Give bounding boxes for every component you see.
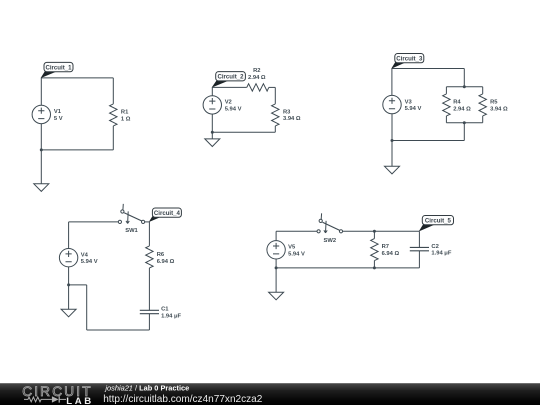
svg-text:Circuit_4: Circuit_4 [154, 210, 181, 217]
label R7 6.94 Ω [382, 244, 400, 257]
wire: bottom horizontal net [276, 267, 419, 269]
voltage source V4 [59, 249, 77, 267]
ground (circuit 3) [385, 166, 400, 174]
wire: below V5 [275, 259, 277, 268]
wire: top horizontal from corner to SW1 [69, 221, 119, 223]
svg-text:5.94 V: 5.94 V [81, 259, 98, 265]
label V1 5 V [54, 109, 63, 122]
node label flag Circuit_5 [419, 216, 454, 232]
wire: right vertical above R3 [274, 87, 276, 104]
svg-text:R3: R3 [283, 109, 291, 115]
wire: ground stem [391, 141, 393, 167]
svg-text:1.94 μF: 1.94 μF [161, 314, 181, 320]
svg-text:Circuit_1: Circuit_1 [45, 64, 72, 71]
ground (circuit 2) [205, 139, 220, 147]
junction at V1 bottom node [40, 148, 43, 151]
label V2 5.94 V [225, 100, 242, 113]
voltage source V2 [203, 96, 221, 114]
svg-text:Circuit_3: Circuit_3 [396, 56, 423, 63]
label V5 5.94 V [288, 245, 305, 258]
voltage source V1 [32, 105, 50, 123]
wire: below C1 [148, 314, 150, 330]
svg-text:V2: V2 [225, 100, 232, 106]
label R4 2.94 Ω [453, 100, 471, 113]
resistor R4 [443, 94, 450, 116]
wire: top horizontal net [392, 68, 464, 70]
wire: ground stem [40, 150, 42, 184]
svg-text:3.94 Ω: 3.94 Ω [490, 107, 508, 113]
svg-text:2.94 Ω: 2.94 Ω [453, 107, 471, 113]
svg-text:V1: V1 [54, 109, 62, 115]
label V4 5.94 V [81, 252, 98, 265]
svg-text:6.94 Ω: 6.94 Ω [382, 251, 400, 257]
wire: above C2 [418, 231, 420, 247]
label R2 2.94 Ω [248, 68, 266, 81]
label R3 3.94 Ω [283, 109, 301, 122]
wire: SW1 to corner [145, 221, 150, 223]
svg-text:5.94 V: 5.94 V [288, 251, 305, 257]
switch SW2 [317, 213, 343, 233]
wire: ground stem [68, 285, 70, 309]
voltage source V3 [383, 95, 401, 113]
wire: left vertical above V5 [275, 231, 277, 241]
wire: R4 top stub [445, 87, 447, 94]
svg-text:LAB: LAB [66, 396, 94, 405]
svg-text:Circuit_2: Circuit_2 [217, 74, 244, 81]
wire: below C2 [418, 251, 420, 268]
ground (circuit 4) [61, 309, 76, 317]
voltage source V5 [267, 241, 285, 259]
svg-text:R6: R6 [157, 252, 165, 258]
ground (circuit 5) [269, 292, 284, 300]
junction at V2 bottom node [211, 131, 214, 134]
wire: below R7 [373, 261, 375, 268]
label C2 1.94 μF [431, 244, 451, 257]
svg-text:SW2: SW2 [324, 238, 337, 244]
footer bar [0, 383, 540, 405]
junction at parallel top node [463, 85, 466, 88]
svg-text:6.94 Ω: 6.94 Ω [157, 259, 175, 265]
node label flag Circuit_1 [41, 62, 73, 78]
node label flag Circuit_2 [212, 72, 246, 88]
svg-text:V3: V3 [405, 99, 413, 105]
resistor R1 [110, 104, 117, 126]
wire: top right segment R2 to corner [269, 86, 276, 88]
svg-text:Circuit_5: Circuit_5 [425, 218, 452, 225]
svg-text:1 Ω: 1 Ω [121, 116, 131, 122]
wire: down to bottom rail [86, 285, 88, 330]
junction at V4 bottom node [67, 283, 70, 286]
wire: junction to right [69, 284, 87, 286]
svg-text:R4: R4 [453, 100, 461, 106]
CircuitLab logo [22, 384, 94, 405]
junction at V5 bottom node [275, 266, 278, 269]
wire: top left segment V2 to R2 [212, 86, 247, 88]
wire: parallel bottom bus [446, 122, 482, 124]
wire: below V2 [211, 114, 213, 132]
wire: right vertical into parallel pair [463, 69, 465, 87]
wire: below V3 [391, 114, 393, 141]
svg-text:C2: C2 [431, 244, 438, 250]
svg-text:http://circuitlab.com/cz4n77xn: http://circuitlab.com/cz4n77xn2cza2 [103, 394, 263, 405]
svg-text:SW1: SW1 [125, 228, 138, 234]
svg-text:5.94 V: 5.94 V [225, 106, 242, 112]
svg-text:1.94 μF: 1.94 μF [431, 251, 451, 257]
wire: bottom horizontal net [392, 140, 464, 142]
wire: below V1 [40, 123, 42, 149]
wire: bottom horizontal net [87, 329, 150, 331]
wire: below R1 [112, 126, 114, 150]
wire: bottom horizontal net [212, 131, 275, 133]
node label flag Circuit_3 [391, 54, 424, 69]
svg-text:3.94 Ω: 3.94 Ω [283, 116, 301, 122]
resistor R5 [479, 94, 486, 116]
node label flag Circuit_4 [149, 208, 182, 222]
svg-text:5 V: 5 V [54, 116, 63, 122]
label C1 1.94 μF [161, 307, 181, 320]
resistor R2 (horizontal) [247, 84, 269, 91]
resistor R6 [146, 246, 153, 268]
junction at R7 top node [373, 230, 376, 233]
wire: right vertical above R6 [148, 222, 150, 246]
wire: SW2 to C2 corner [343, 230, 420, 232]
label R5 3.94 Ω [490, 100, 508, 113]
junction at parallel bottom node [463, 121, 466, 124]
wire: ground stem [211, 132, 213, 139]
label R1 1 Ω [121, 110, 131, 123]
wire: bottom horizontal net [41, 149, 113, 151]
svg-text:R5: R5 [490, 100, 498, 106]
svg-text:R1: R1 [121, 110, 129, 116]
wire: R5 bottom stub [482, 116, 484, 123]
wire: left vertical above V2 [211, 87, 213, 96]
wire: ground stem [275, 268, 277, 292]
wire: above R7 [373, 231, 375, 238]
svg-text:V4: V4 [81, 252, 89, 258]
wire: left vertical above V1 [40, 78, 42, 106]
wire: below R3 [274, 126, 276, 132]
capacitor C1 [140, 310, 159, 313]
junction at R7 bottom node [373, 266, 376, 269]
wire: left vertical above V4 [68, 222, 70, 249]
svg-text:5.94 V: 5.94 V [405, 106, 422, 112]
wire: R5 top stub [482, 87, 484, 94]
svg-text:V5: V5 [288, 245, 296, 251]
capacitor C2 [410, 247, 429, 250]
label R6 6.94 Ω [157, 252, 175, 265]
svg-text:joshia21 / Lab 0 Practice: joshia21 / Lab 0 Practice [104, 384, 189, 393]
wire: top horizontal net from V1 to R1 [41, 77, 113, 79]
resistor R3 [272, 104, 279, 126]
label V3 5.94 V [405, 99, 422, 112]
svg-text:R2: R2 [253, 68, 260, 74]
wire: below V4 [68, 267, 70, 285]
resistor R7 [371, 239, 378, 261]
svg-text:C1: C1 [161, 307, 169, 313]
switch SW1 [118, 204, 144, 224]
wire: left vertical above V3 [391, 69, 393, 96]
wire: top horizontal from corner to SW2 [276, 230, 317, 232]
wire: R6 to C1 [148, 268, 150, 310]
ground (circuit 1) [34, 184, 49, 192]
svg-text:2.94 Ω: 2.94 Ω [248, 75, 266, 81]
wire: R4 bottom stub [445, 116, 447, 123]
wire: right vertical below parallel pair [463, 123, 465, 141]
wire: right vertical above R1 [112, 78, 114, 104]
wire: parallel top bus [446, 86, 482, 88]
svg-text:R7: R7 [382, 244, 389, 250]
junction at V3 bottom node [391, 139, 394, 142]
